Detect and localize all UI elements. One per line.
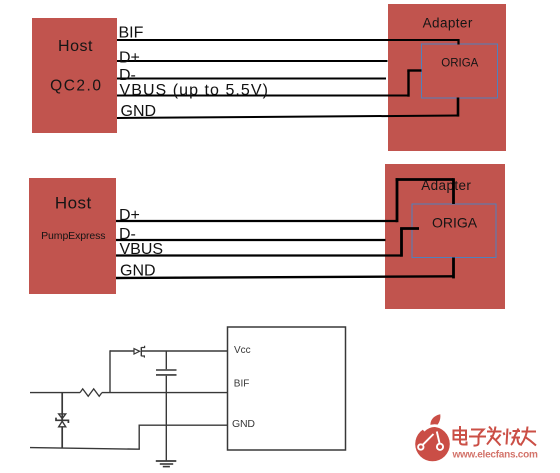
watermark chinese 烧 <box>504 429 521 446</box>
svg-text:BIF: BIF <box>234 379 250 390</box>
svg-text:GND: GND <box>121 103 157 120</box>
host block Host QC2.0 <box>32 18 117 133</box>
svg-text:www.elecfans.com: www.elecfans.com <box>452 450 538 461</box>
wire D- 1 <box>117 78 386 80</box>
adapter block 2 <box>385 164 505 309</box>
adapter block 1 <box>388 4 506 151</box>
watermark chinese 电 <box>454 426 467 445</box>
svg-text:GND: GND <box>120 263 156 280</box>
IC U1 box <box>228 327 346 450</box>
wire Vcc rail <box>110 350 228 352</box>
wire GND net <box>30 425 228 450</box>
wire D+ 1 <box>117 60 388 62</box>
resistor R1 <box>80 389 102 396</box>
watermark logo disc <box>415 414 450 461</box>
wire riser <box>109 350 111 392</box>
capacitor C1 <box>156 351 177 460</box>
wire GND 1 <box>117 98 458 119</box>
ORIGA box 1 <box>422 44 498 98</box>
ORIGA box 2 <box>412 204 496 258</box>
svg-text:ORIGA: ORIGA <box>432 214 478 230</box>
svg-text:D+: D+ <box>119 207 140 224</box>
wire BIF net <box>30 392 228 394</box>
svg-text:BIF: BIF <box>119 25 144 42</box>
wire VBUS 2 <box>116 229 419 257</box>
svg-text:Host: Host <box>55 194 92 213</box>
wire BIF 1 <box>117 39 460 45</box>
svg-text:QC2.0: QC2.0 <box>50 77 102 94</box>
wire D+ 2 <box>116 178 454 222</box>
svg-text:GND: GND <box>232 418 255 430</box>
wire VBUS 1 <box>117 71 422 97</box>
watermark chinese 子 <box>469 430 486 446</box>
svg-text:Adapter: Adapter <box>423 15 473 30</box>
svg-text:ORIGA: ORIGA <box>441 57 478 69</box>
wire D- 2 <box>116 239 386 241</box>
watermark chinese 发 <box>487 427 502 446</box>
svg-text:Vcc: Vcc <box>234 345 251 356</box>
host block Host PumpExpress <box>29 178 116 294</box>
watermark chinese 友 <box>521 427 537 446</box>
svg-text:VBUS (up to 5.5V): VBUS (up to 5.5V) <box>120 82 269 99</box>
ground symbol <box>156 461 177 467</box>
wire GND 2 <box>116 258 454 279</box>
diode D1 schottky <box>134 346 145 358</box>
svg-text:PumpExpress: PumpExpress <box>41 230 105 242</box>
svg-text:D+: D+ <box>119 49 140 66</box>
zener TVS Z1 <box>56 393 68 448</box>
svg-text:VBUS: VBUS <box>120 241 164 258</box>
svg-text:Host: Host <box>58 38 93 55</box>
